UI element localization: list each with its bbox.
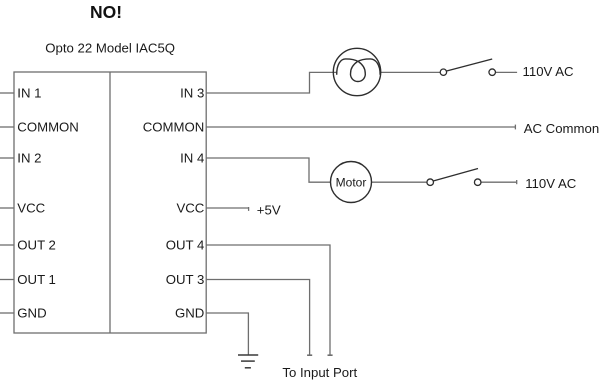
wire motor to switch S2 [372,181,428,183]
switch S1 right contact [489,69,496,76]
wire COMMON to AC Common [206,126,515,128]
wire OUT 4 to input port [206,245,330,355]
svg-text:OUT 1: OUT 1 [17,272,56,287]
svg-text:IN 1: IN 1 [17,86,41,101]
wire IN 4 to motor [206,158,330,182]
svg-text:Motor: Motor [336,175,367,189]
svg-text:OUT 3: OUT 3 [166,272,205,287]
svg-text:To Input Port: To Input Port [282,365,357,380]
ground symbol [238,355,258,368]
svg-text:+5V: +5V [257,202,281,217]
lamp DS1 filament [337,59,380,82]
switch S2 lever [433,169,478,182]
svg-text:OUT 2: OUT 2 [17,238,56,253]
svg-text:AC Common: AC Common [524,121,599,136]
tick +5V end [248,207,250,211]
svg-text:COMMON: COMMON [17,120,79,135]
wire lamp to switch S1 [380,71,440,73]
wire GND to ground [206,313,248,355]
svg-text:GND: GND [175,306,204,321]
svg-text:COMMON: COMMON [143,120,205,135]
tick AC Common end [514,125,516,130]
svg-text:110V AC: 110V AC [525,176,577,191]
switch S2 right contact [474,179,481,186]
wire left stub IN 1 [0,92,14,94]
wire IN 3 to lamp [206,72,337,93]
wire left stub COMMON [0,126,14,128]
svg-text:IN 2: IN 2 [17,151,41,166]
switch S1 left contact [440,69,446,75]
svg-text:Opto 22 Model IAC5Q: Opto 22 Model IAC5Q [45,40,175,55]
lamp DS1 circle [333,48,380,95]
wire left stub VCC [0,207,14,209]
IC U1 divider line [109,72,111,333]
tick 110V AC end [516,180,518,184]
svg-text:NO!: NO! [90,2,122,22]
wire left stub OUT 2 [0,244,14,246]
svg-text:GND: GND [17,306,46,321]
wire left stub IN 2 [0,157,14,159]
wire switch S2 to 110V AC [481,181,517,183]
wire VCC to +5V [206,207,249,209]
svg-text:IN 4: IN 4 [180,151,204,166]
IC U1 Opto 22 IAC5Q module body [14,72,206,333]
motor M1 circle [331,162,372,203]
wire switch S1 to 110V AC [496,71,518,73]
svg-text:VCC: VCC [17,201,45,216]
tick OUT 3 wire end [307,354,312,356]
wire OUT 3 to input port [206,280,309,355]
switch S2 left contact [427,179,434,186]
switch S1 lever [447,59,493,71]
svg-text:VCC: VCC [176,201,204,216]
svg-text:110V AC: 110V AC [523,64,575,79]
wire left stub OUT 1 [0,279,14,281]
svg-text:OUT 4: OUT 4 [166,238,205,253]
wire left stub GND [0,312,14,314]
tick OUT 4 wire end [328,354,333,356]
svg-text:IN 3: IN 3 [180,86,204,101]
